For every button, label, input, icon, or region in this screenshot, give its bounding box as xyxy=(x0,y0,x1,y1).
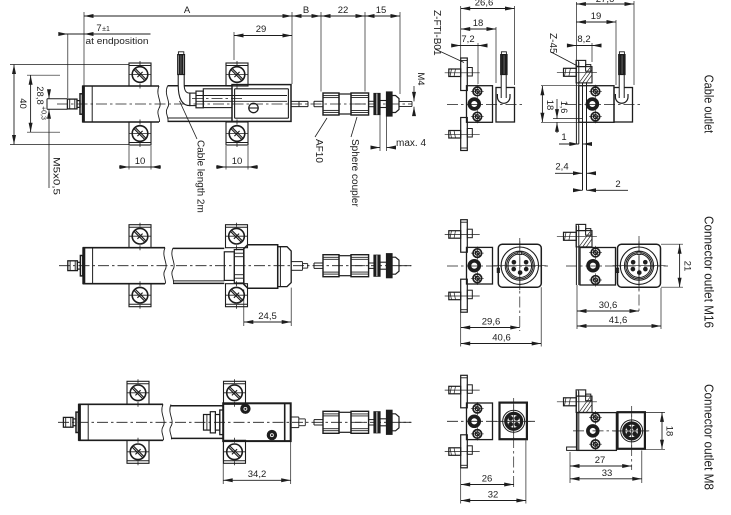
end view1 extension lines xyxy=(460,6,462,58)
wire centerline tail xyxy=(399,265,412,267)
thread label M5x0,5 xyxy=(48,92,50,99)
svg-text:33: 33 xyxy=(602,468,613,479)
svg-text:26,6: 26,6 xyxy=(475,0,494,9)
svg-text:40,6: 40,6 xyxy=(492,333,511,344)
M8 connector square xyxy=(500,403,527,440)
wire rod stub to coupler xyxy=(314,419,323,421)
row3 end view1 centerline xyxy=(447,420,535,422)
coupler nut AF10 xyxy=(323,93,339,115)
Z-45 clamp body xyxy=(576,231,592,247)
sensor body end view2 row2 xyxy=(580,248,616,286)
svg-text:A: A xyxy=(184,5,191,16)
cable clamp loop xyxy=(615,94,628,103)
M8 pins xyxy=(509,416,513,420)
coupler end cap xyxy=(392,414,399,431)
M16 center lines xyxy=(638,241,640,290)
dimension 15 xyxy=(365,15,400,17)
lower stud bolt xyxy=(449,292,461,300)
svg-text:±1: ±1 xyxy=(102,26,110,33)
extension lines top chain xyxy=(83,12,85,99)
svg-text:27: 27 xyxy=(595,455,606,466)
dimension 30,6 xyxy=(577,310,639,312)
mounting plate lower part xyxy=(461,279,468,312)
dimension 18 top xyxy=(461,28,496,30)
mounting plate bar cross-section xyxy=(575,391,577,450)
body break line xyxy=(164,248,166,284)
cable end sleeve hatched xyxy=(501,55,507,75)
rod bushing view2 xyxy=(588,99,598,109)
coupler middle body xyxy=(339,256,351,276)
coupler end cap xyxy=(392,257,399,274)
dimension 34,2 xyxy=(222,441,224,484)
clamp pair 1 bottom xyxy=(129,122,151,145)
M16 side tab xyxy=(497,268,499,272)
housing screw lower xyxy=(473,430,482,439)
dimension 18 left of view2 xyxy=(541,85,578,87)
svg-text:Cable length 2m: Cable length 2m xyxy=(195,140,206,213)
svg-text:28,8: 28,8 xyxy=(34,86,45,105)
label M4 with arrows xyxy=(413,86,415,101)
cable (end view) xyxy=(501,55,506,98)
M4 stud xyxy=(399,101,412,103)
dimension 40,6 xyxy=(461,343,542,345)
push rod out row2 xyxy=(291,261,302,263)
body break line xyxy=(158,86,160,122)
clamp pair 2 bottom xyxy=(224,440,246,463)
Z-45 clamp stud xyxy=(564,232,577,240)
svg-text:Z-FTI-B01: Z-FTI-B01 xyxy=(431,10,442,56)
wire rod stub to coupler xyxy=(314,100,323,102)
svg-text:18: 18 xyxy=(544,100,555,111)
svg-text:Cable outlet: Cable outlet xyxy=(702,75,717,134)
dimension 40 xyxy=(10,64,129,66)
svg-text:19: 19 xyxy=(591,11,602,22)
row1 end view 2 centerline xyxy=(565,103,640,105)
sensor housing end face xyxy=(467,247,493,284)
svg-text:18: 18 xyxy=(664,426,675,437)
housing screws view2 xyxy=(591,87,600,96)
Z-45 clamp cap xyxy=(576,60,586,66)
M8 connector circles xyxy=(621,420,643,442)
sensor head block row3 xyxy=(223,403,291,441)
svg-text:26: 26 xyxy=(482,474,493,485)
connector end cap xyxy=(278,247,292,287)
M8 plug on head xyxy=(204,415,211,431)
upper stud bolt xyxy=(449,386,461,394)
wire rod between coupler and discs xyxy=(369,419,374,421)
M8 center lines xyxy=(631,414,633,447)
bottom step tab xyxy=(567,447,577,450)
svg-text:10: 10 xyxy=(135,156,146,167)
row3 end view2 centerline xyxy=(573,430,650,432)
dimension 19 xyxy=(576,21,616,23)
svg-text:M5x0,5: M5x0,5 xyxy=(51,157,62,195)
row2 view2 extension lines xyxy=(576,285,578,329)
M16 connector circles xyxy=(620,247,657,284)
svg-text:1: 1 xyxy=(561,132,566,143)
row3 view1 vertical centerline xyxy=(513,398,515,489)
svg-text:at endposition: at endposition xyxy=(86,36,149,47)
clamp pair 2 top xyxy=(226,63,248,86)
svg-text:27,6: 27,6 xyxy=(596,0,615,5)
dimension A xyxy=(84,15,292,17)
housing screw upper xyxy=(473,249,482,258)
sensor body cylinder xyxy=(82,85,159,87)
svg-text:2,4: 2,4 xyxy=(555,162,568,173)
head screw xyxy=(249,103,258,112)
clamp pair 1 top xyxy=(129,63,151,86)
head screw bottom xyxy=(267,430,277,440)
head screw top xyxy=(241,404,251,414)
row2 end view2 centerline xyxy=(566,265,668,267)
coupler spacer xyxy=(380,419,387,426)
svg-text:Connector outlet M8: Connector outlet M8 xyxy=(702,384,717,490)
row3 view2 extension lines xyxy=(569,452,571,483)
svg-text:8,2: 8,2 xyxy=(577,34,590,45)
dimension max. 4 xyxy=(379,114,381,151)
svg-text:30,6: 30,6 xyxy=(599,300,618,311)
row2 centerline xyxy=(59,265,411,267)
svg-text:34,2: 34,2 xyxy=(248,469,267,480)
coupler disc 2 xyxy=(387,92,393,116)
lower stud bolt xyxy=(449,448,461,456)
sensor head block xyxy=(232,85,291,122)
coupler end cap xyxy=(392,96,399,113)
push rod out xyxy=(291,100,308,102)
label Sphere coupler xyxy=(351,117,357,137)
label Z-FTI-B01 xyxy=(435,49,464,63)
svg-text:29,6: 29,6 xyxy=(482,317,501,328)
dimension 2 xyxy=(574,189,583,191)
svg-text:AF10: AF10 xyxy=(313,139,324,163)
svg-text:40: 40 xyxy=(17,98,28,109)
Z-45 clamp stud xyxy=(564,68,577,76)
svg-text:max. 4: max. 4 xyxy=(396,138,426,149)
svg-text:18: 18 xyxy=(473,18,484,29)
svg-text:Z-45: Z-45 xyxy=(547,33,558,54)
clamp pair 2 top xyxy=(224,381,246,404)
svg-text:2: 2 xyxy=(615,179,620,190)
Z-45 clamp body xyxy=(576,396,592,412)
dimension B xyxy=(292,15,321,17)
Z-45 tab xyxy=(586,65,591,72)
cable vertical with hatched sleeve xyxy=(178,55,185,75)
tube clamp ring xyxy=(224,252,234,281)
coupler spacer xyxy=(380,101,387,108)
row3 view2 vertical centerline xyxy=(631,406,633,470)
dimension 22 xyxy=(321,15,365,17)
cable gland ferrule xyxy=(190,93,196,106)
row1 end view 1 centerline xyxy=(447,103,524,105)
svg-text:7: 7 xyxy=(96,23,101,34)
Z-45 clamp cap xyxy=(576,390,586,396)
M16 connector square xyxy=(618,244,661,287)
tube profile xyxy=(168,85,233,87)
mounting plate bar cross-section xyxy=(575,226,577,285)
M8 connector square xyxy=(618,412,645,449)
upper stud bolt xyxy=(449,231,461,239)
sensor body cylinder xyxy=(83,247,165,249)
mounting plate lower part xyxy=(461,118,468,151)
clamp pair 2 top xyxy=(226,225,248,248)
svg-text:+0,3: +0,3 xyxy=(40,106,47,120)
svg-text:1,6: 1,6 xyxy=(559,101,569,114)
wire rod stub to coupler xyxy=(314,262,323,264)
coupler disc 1 xyxy=(374,94,380,115)
dimension 41,6 xyxy=(577,325,661,327)
dimension 7 at endposition xyxy=(67,34,69,98)
label Cable length 2m xyxy=(180,101,198,139)
cable (end view) xyxy=(619,55,624,98)
coupler disc 2 xyxy=(387,254,393,278)
coupler nut AF10 xyxy=(323,411,339,433)
dimension 21 xyxy=(661,243,683,245)
mounting plate Z-FTI-B01 upper part xyxy=(461,220,468,253)
rod bushing xyxy=(469,261,479,271)
M8 pins xyxy=(627,426,631,430)
label Z-45 xyxy=(551,52,578,66)
sensor housing end face xyxy=(467,86,493,123)
row2 view1 vertical centerline xyxy=(519,238,521,331)
clamp pair 2 bottom xyxy=(226,284,248,307)
dimension 1,6 xyxy=(553,118,582,120)
Z-45 clamp body xyxy=(576,67,592,83)
dimension 29,6 xyxy=(461,327,520,329)
row3 view1 extension lines xyxy=(460,468,462,504)
actuator rod hex nut xyxy=(63,417,73,427)
dimension 26,6 xyxy=(461,8,515,10)
connector barrel xyxy=(244,245,278,289)
mounting plate bar cross-section xyxy=(575,62,577,144)
coupler middle body xyxy=(339,94,351,114)
rod bushing xyxy=(469,99,479,109)
row1 centerline xyxy=(57,103,412,105)
mounting plate lower part xyxy=(461,435,468,468)
dimension 10 second clamp xyxy=(225,146,227,170)
tube profile row2 xyxy=(173,247,224,249)
wire rod between coupler and discs xyxy=(369,262,374,264)
M5 threaded rod xyxy=(47,98,67,100)
wire centerline tail xyxy=(399,421,412,423)
M8 center lines xyxy=(513,405,515,438)
housing screw upper xyxy=(473,87,482,96)
lower stud bolt xyxy=(449,131,461,139)
coupler nut AF10 xyxy=(323,255,339,277)
M16 pins xyxy=(631,260,635,264)
coupler disc 1 xyxy=(374,412,380,433)
svg-text:24,5: 24,5 xyxy=(258,311,277,322)
row2 view1 extension lines xyxy=(460,312,462,346)
mounting plate Z-FTI-B01 upper part xyxy=(461,375,468,408)
upper stud bolt xyxy=(449,69,461,77)
svg-text:21: 21 xyxy=(682,261,693,272)
row3 centerline xyxy=(58,421,411,423)
housing screw upper xyxy=(473,404,482,413)
svg-text:29: 29 xyxy=(256,24,267,35)
dimension 27 xyxy=(570,465,632,467)
svg-text:32: 32 xyxy=(488,490,499,501)
coupler nut 2 xyxy=(351,411,369,433)
M16 connector square xyxy=(498,244,541,287)
sensor body end view2 xyxy=(579,86,614,123)
svg-text:M4: M4 xyxy=(415,72,426,85)
row2 end view1 centerline xyxy=(447,265,548,267)
svg-text:Connector outlet M16: Connector outlet M16 xyxy=(702,216,717,328)
body break line xyxy=(162,404,164,440)
coupler middle body xyxy=(339,412,351,432)
dimension 7,2 xyxy=(452,45,482,47)
push rod out row3 xyxy=(291,416,299,418)
cable elbow xyxy=(178,55,190,106)
coupler nut 2 xyxy=(351,93,369,115)
label AF10 xyxy=(315,118,327,137)
clamp pair 2 bottom xyxy=(226,122,248,145)
actuator rod hex nut xyxy=(68,261,78,271)
M16 keyway xyxy=(518,252,522,255)
M8 connector circles xyxy=(503,410,525,432)
M16 side tab xyxy=(616,268,618,272)
svg-text:10: 10 xyxy=(232,156,243,167)
Z-45 clamp cap xyxy=(576,224,586,230)
svg-text:Sphere coupler: Sphere coupler xyxy=(349,139,360,207)
clamp blade cross-section xyxy=(582,83,584,190)
dimension 8,2 xyxy=(568,45,598,47)
clamp pair 1 top xyxy=(129,225,151,248)
dimension 27,6 clipped xyxy=(576,3,634,5)
dimension 26 xyxy=(461,484,514,486)
M16 keyway xyxy=(637,252,641,255)
housing screw lower xyxy=(473,112,482,121)
clamp pair 1 top xyxy=(127,381,149,404)
mounting plate Z-FTI-B01 upper part xyxy=(461,58,468,91)
coupler disc 1 xyxy=(374,255,380,276)
svg-text:15: 15 xyxy=(376,5,387,16)
dimension 18 row3 xyxy=(644,411,665,413)
actuator rod hex nut xyxy=(67,99,77,109)
M16 center lines xyxy=(519,241,521,290)
cable end sleeve hatched xyxy=(619,55,625,75)
sensor body cylinder xyxy=(78,403,163,405)
coupler nut 2 xyxy=(351,255,369,277)
cable gland nut xyxy=(196,91,203,108)
dimension 24,5 xyxy=(243,289,245,326)
svg-text:7,2: 7,2 xyxy=(461,34,474,45)
clamp pair 1 bottom xyxy=(129,284,151,307)
Z-45 tab xyxy=(586,394,591,401)
M16 connector circles xyxy=(501,247,538,284)
M16 pins xyxy=(512,260,516,264)
dimension 2,4 xyxy=(555,172,583,174)
row2 view2 vertical centerline xyxy=(638,236,640,314)
rod bushing xyxy=(469,416,479,426)
coupler spacer xyxy=(380,262,387,269)
sensor housing end face xyxy=(467,403,493,440)
cable outlet bracket xyxy=(496,88,515,123)
clamp pair 1 bottom xyxy=(127,440,149,463)
tube profile row3 xyxy=(171,405,223,407)
svg-text:B: B xyxy=(303,5,309,16)
sensor body end view2 row3 xyxy=(577,413,616,451)
housing screw lower xyxy=(473,274,482,283)
cable clamp loop xyxy=(497,94,510,103)
dimension 32 xyxy=(461,500,526,502)
dimension 33 xyxy=(570,478,642,480)
Z-45 tab xyxy=(586,229,591,236)
coupler disc 2 xyxy=(387,410,393,434)
svg-text:22: 22 xyxy=(338,5,349,16)
dimension 29 xyxy=(233,32,235,60)
dimension 1 xyxy=(559,143,579,145)
cable gland body xyxy=(203,89,232,108)
wire rod between coupler and discs xyxy=(369,100,374,102)
end view2 extension lines xyxy=(575,2,577,62)
cable outlet bracket xyxy=(614,88,633,123)
dimension 28,8 +0,3 xyxy=(27,74,60,76)
connector knurled nut xyxy=(234,250,244,283)
svg-text:41,6: 41,6 xyxy=(609,315,628,326)
Z-45 clamp stud xyxy=(564,398,577,406)
dimension 10 first clamp xyxy=(128,146,130,170)
